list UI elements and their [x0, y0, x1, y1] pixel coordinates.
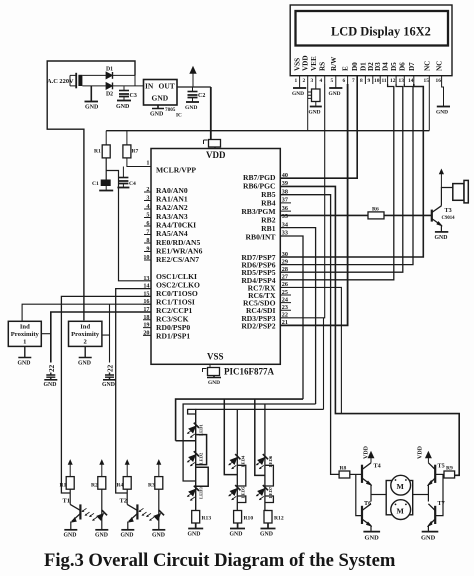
- svg-text:9: 9: [368, 78, 371, 84]
- light arrows from D3: [89, 513, 97, 521]
- wire: R7 top to rail: [126, 131, 128, 145]
- svg-text:GND: GND: [64, 533, 77, 539]
- svg-text:R9: R9: [446, 466, 453, 472]
- svg-text:GND: GND: [18, 361, 31, 367]
- wire: LCD D4 to PIC pin27: [280, 84, 394, 280]
- wire: chain2 jumper a: [237, 465, 246, 486]
- wire: LED chain1 main vertical: [195, 409, 197, 511]
- wire: LCD VDD pin2 down to VCC rail: [307, 84, 309, 131]
- wire: PIC pin35 RB2 through R6 to T3 base: [280, 214, 432, 216]
- svg-text:LED2: LED2: [199, 452, 204, 464]
- svg-text:R2: R2: [91, 483, 98, 489]
- ground: R10: [230, 523, 245, 529]
- wire: LED chain2 main vertical: [236, 454, 238, 510]
- light arrows into T2: [139, 508, 147, 516]
- ground: T3: [435, 231, 448, 233]
- svg-text:D2: D2: [106, 92, 113, 98]
- svg-text:7: 7: [352, 78, 355, 84]
- wire: T4 emitter to T6 collector (midpoint left): [370, 485, 372, 502]
- svg-text:C1: C1: [92, 181, 99, 187]
- svg-text:GND: GND: [78, 361, 91, 367]
- svg-text:11: 11: [382, 78, 387, 84]
- transistor T6: [361, 506, 363, 524]
- LED D6 chain1b: [188, 451, 199, 462]
- microcontroller U1 PIC16F877A box: [151, 149, 280, 365]
- svg-text:VEE: VEE: [310, 56, 318, 71]
- wire: LED rail H1b: [183, 404, 316, 481]
- light arrows into T1: [82, 508, 90, 516]
- wire: LCD D7 to PIC pin30: [280, 84, 423, 257]
- wire: H1 drop to chain2 midpoint: [224, 399, 237, 475]
- resistor R13: [192, 511, 200, 524]
- svg-text:1: 1: [146, 160, 149, 167]
- wire: T5/T7 base drop: [435, 474, 443, 515]
- svg-text:VSS: VSS: [294, 58, 302, 71]
- power flag above R1: [68, 459, 73, 477]
- svg-text:4: 4: [320, 78, 323, 84]
- wire: LED chain3 main vertical: [265, 454, 268, 510]
- capacitor C2: [188, 91, 198, 93]
- LED D7 chain1c: [188, 486, 199, 497]
- wire: pin15 to T1 sensor collector: [61, 296, 151, 493]
- wire: T4/T6 base drop: [356, 474, 362, 515]
- wire: R9 to T5 base: [435, 473, 444, 475]
- LED D10 chain3a: [257, 454, 268, 465]
- ground: D3: [95, 529, 108, 531]
- wire: H1 left zig to chain1: [176, 440, 196, 442]
- svg-text:C9014: C9014: [442, 216, 456, 221]
- motor M1: [391, 475, 411, 495]
- transistor T3 C9014: [431, 210, 433, 222]
- ground: T6: [363, 531, 380, 533]
- svg-text:IN: IN: [145, 82, 154, 91]
- wire: transformer secondary bottom to D2: [82, 85, 106, 87]
- wire: VCC rail horizontal: [106, 130, 429, 132]
- wire: LCD E to PIC pin21: [280, 84, 347, 325]
- wire: rectifier-output top frame: [47, 61, 135, 320]
- svg-text:R13: R13: [202, 516, 212, 522]
- ground: cap 22 (2): [103, 379, 116, 381]
- power flag VDD at T4: [370, 457, 372, 463]
- capacitor C3: [119, 90, 129, 92]
- wire: R4 to T2 collector: [126, 489, 128, 504]
- ground: T1 emitter: [64, 529, 77, 531]
- svg-text:GND: GND: [230, 532, 243, 538]
- IR LED D3: [96, 510, 107, 521]
- ground: R13: [188, 523, 203, 529]
- svg-text:GND: GND: [85, 105, 99, 111]
- svg-text:PIC16F877A: PIC16F877A: [224, 367, 274, 377]
- wire: LCD backlight pin15 down to VCC rail: [428, 84, 430, 131]
- wire: T3 emitter to ground: [440, 225, 442, 232]
- svg-text:R12: R12: [274, 516, 284, 522]
- wire: rail H2 riser to pin22 net: [323, 318, 325, 410]
- svg-text:OUT: OUT: [159, 82, 175, 91]
- resistor R12: [264, 511, 272, 524]
- svg-text:R8: R8: [340, 466, 347, 472]
- svg-text:T2: T2: [120, 498, 127, 505]
- svg-text:R10: R10: [244, 516, 254, 522]
- resistor R9: [444, 471, 455, 478]
- diode D1: [106, 72, 113, 79]
- wire: pin17 net to prox1 output / cap: [51, 312, 151, 363]
- PIC right stubs pins 37,36,35,25,24,23 (short): [280, 203, 291, 310]
- wire: H2 drop to LED chain2: [236, 409, 238, 454]
- PIC left stubs pins 2-10: [144, 192, 151, 260]
- svg-text:12: 12: [390, 78, 396, 84]
- wire: midpoint left to motor frame: [371, 494, 386, 496]
- resistor R3: [155, 477, 163, 490]
- wire: T6 emitter to ground: [370, 526, 372, 532]
- transformer X1: [75, 73, 77, 89]
- svg-text:1: 1: [23, 339, 26, 346]
- wire: LCD D0 to PIC pin40 RB7: [280, 76, 357, 179]
- wire: proximity2 output to pin16 net: [102, 304, 110, 335]
- ferrite bead above PIC VDD: [204, 140, 208, 144]
- svg-text:RD2/PSP2: RD2/PSP2: [241, 321, 275, 330]
- wire: R1 to T1 collector: [69, 489, 71, 504]
- wire: R3 to IR LED: [158, 489, 160, 530]
- svg-text:Ind: Ind: [80, 324, 90, 331]
- resistor R8: [339, 471, 350, 478]
- svg-text:13: 13: [399, 78, 405, 84]
- wire: R1 top to rail: [105, 131, 107, 145]
- wire: chain1 jumper b: [196, 467, 209, 486]
- wire: T3 collector up: [441, 188, 452, 206]
- wire: chain1 jumper a: [196, 435, 207, 465]
- LED D9 chain2b: [229, 485, 240, 496]
- svg-text:16: 16: [436, 78, 442, 84]
- wire: PIC pin39 RB6 to motor driver right (R9 loop): [280, 186, 459, 475]
- svg-text:LCD Display 16X2: LCD Display 16X2: [331, 25, 431, 39]
- svg-text:VDD: VDD: [302, 55, 310, 71]
- svg-text:22: 22: [107, 364, 115, 372]
- LCD pin stubs: [300, 76, 442, 84]
- ground: R12: [261, 523, 276, 529]
- svg-text:GND: GND: [152, 94, 169, 103]
- light arrows from D4: [146, 513, 154, 521]
- svg-text:T1: T1: [63, 498, 70, 505]
- IR LED D4: [153, 510, 164, 521]
- ground: LCD pin16: [442, 84, 444, 107]
- wire: VCC vertical down to ferrite bead: [210, 87, 212, 140]
- wire: T7 emitter to ground: [427, 526, 429, 532]
- wire: cap2 below prox2: [109, 335, 111, 362]
- LCD module inner box: [296, 11, 449, 46]
- svg-text:GND: GND: [260, 532, 273, 538]
- svg-text:GND: GND: [44, 382, 57, 388]
- wire: pin16 net to proximity1 supply: [22, 304, 151, 321]
- wire: chain3 jumper a: [265, 465, 274, 486]
- svg-text:E: E: [342, 66, 350, 71]
- wire: MCLR RC node to OSC1 pin13: [106, 171, 151, 281]
- ground: T7: [422, 531, 439, 533]
- wire: R8 to T4 base: [350, 473, 362, 475]
- motor loop frame: [386, 481, 413, 515]
- wire: LCD D6 to PIC pin29: [280, 84, 413, 265]
- LED D5 chain1a: [188, 423, 199, 434]
- power flag: +V arrow at 7805 output: [192, 72, 194, 87]
- wire: R1 bottom to C1: [105, 158, 107, 180]
- svg-text:10: 10: [374, 78, 380, 84]
- PIC right pin numbers: [282, 172, 288, 326]
- ground: LCD VSS pin1: [299, 84, 301, 88]
- svg-text:5: 5: [331, 78, 334, 84]
- ground: 7805: [152, 105, 164, 109]
- svg-text:22: 22: [48, 364, 56, 372]
- wire: H1 drop to chain3 midpoint: [255, 399, 265, 475]
- svg-text:8: 8: [360, 78, 363, 84]
- svg-text:IC: IC: [176, 113, 182, 119]
- motor M2: [391, 500, 411, 520]
- svg-text:GND: GND: [150, 112, 164, 118]
- wire: PIC pin26 RC7 down-route: [280, 287, 341, 413]
- wire: H2 drop to chain1 top: [188, 409, 196, 414]
- svg-text:Proximity: Proximity: [11, 331, 40, 338]
- svg-text:R7: R7: [132, 149, 139, 155]
- svg-text:D0: D0: [351, 62, 359, 71]
- resistor R2: [98, 477, 106, 490]
- PIC left pin numbers: [143, 160, 149, 337]
- buzzer LS1: [453, 184, 464, 201]
- svg-text:M: M: [397, 506, 405, 515]
- transistor T7: [434, 506, 436, 524]
- wire: D1 to node: [113, 74, 136, 76]
- svg-text:GND: GND: [121, 533, 134, 539]
- svg-text:Proximity: Proximity: [71, 331, 100, 338]
- svg-text:VDD: VDD: [206, 150, 226, 160]
- svg-text:R6: R6: [372, 207, 379, 213]
- wire: LCD RS to PIC pin22: [280, 84, 324, 318]
- LED D8 chain2a: [229, 454, 240, 465]
- svg-text:Fig.3 Overall Circuit Diagram: Fig.3 Overall Circuit Diagram of the Sys…: [44, 550, 396, 571]
- PIC right pin labels: [241, 173, 276, 330]
- svg-text:GND: GND: [421, 535, 436, 542]
- svg-text:R4: R4: [117, 483, 124, 489]
- LCD pin numbers 1-16: [295, 78, 442, 84]
- svg-text:C2: C2: [198, 93, 205, 99]
- wire: 7805 OUT to VCC node: [177, 86, 211, 88]
- svg-text:GND: GND: [102, 382, 115, 388]
- power flag above R4: [125, 459, 130, 477]
- wire: proximity1 output stub: [41, 333, 51, 335]
- power flag at T3 collector: [440, 174, 442, 188]
- PIC left pin labels: [156, 166, 203, 341]
- wire: PIC pin38 RB5 to motor driver left (R8): [280, 195, 339, 475]
- sensor module Ind Proximity 1: [8, 321, 41, 346]
- resistor R6: [368, 212, 384, 219]
- svg-text:GND: GND: [329, 91, 341, 97]
- wire: D2 out: [113, 85, 144, 87]
- svg-text:R1: R1: [94, 149, 101, 155]
- svg-text:RA2/AN2: RA2/AN2: [156, 203, 188, 212]
- ground: C2: [186, 101, 199, 103]
- svg-text:NC: NC: [423, 61, 431, 71]
- svg-text:D7: D7: [408, 62, 416, 71]
- svg-text:RB0/INT: RB0/INT: [246, 233, 276, 242]
- svg-text:T5: T5: [438, 463, 445, 470]
- wire: T5 emitter to T7 collector (midpoint right): [427, 485, 429, 502]
- LCD module outer box: [290, 5, 452, 76]
- svg-text:D1: D1: [106, 67, 113, 73]
- svg-text:GND: GND: [185, 105, 197, 111]
- svg-text:GND: GND: [95, 533, 108, 539]
- transistor T4: [361, 465, 363, 483]
- svg-text:R1: R1: [60, 483, 67, 489]
- svg-text:1: 1: [295, 78, 298, 84]
- wire: motor frame to midpoint right: [413, 494, 429, 496]
- ground: C3: [117, 100, 131, 102]
- svg-text:VSS: VSS: [207, 352, 224, 362]
- svg-text:T3: T3: [445, 207, 452, 214]
- wire: R2 to IR LED: [101, 489, 103, 530]
- svg-text:M: M: [397, 482, 405, 491]
- resistor R4: [123, 477, 131, 490]
- svg-text:D6: D6: [398, 62, 406, 71]
- ground: proximity 1: [18, 346, 31, 357]
- wire: LCD D5 to PIC pin28: [280, 84, 403, 272]
- svg-text:GND: GND: [116, 104, 130, 110]
- svg-text:GND: GND: [208, 380, 220, 386]
- wire: H1b drop to LED chain3: [264, 404, 266, 454]
- capacitor C1: [101, 180, 111, 187]
- svg-text:C4: C4: [129, 181, 136, 187]
- svg-text:T4: T4: [374, 463, 381, 470]
- svg-text:D5: D5: [390, 62, 398, 71]
- decoupling component at VSS: [203, 364, 211, 372]
- svg-text:14: 14: [408, 78, 414, 84]
- svg-text:R3: R3: [148, 483, 155, 489]
- ground: D4: [152, 529, 165, 531]
- svg-text:Ind: Ind: [20, 324, 30, 331]
- wire: LED rail H1: [176, 399, 303, 441]
- wire: ac to transformer: [70, 75, 76, 86]
- wire: PIC pin33 RB0 to LED rail H1: [280, 236, 303, 399]
- svg-text:VDD: VDD: [418, 445, 424, 459]
- svg-text:GND: GND: [152, 533, 165, 539]
- svg-text:R/W: R/W: [330, 56, 338, 71]
- power flag VDD at T5: [427, 457, 429, 463]
- sensor module Ind Proximity 2: [69, 321, 102, 346]
- resistor R1: [66, 477, 74, 490]
- svg-text:C3: C3: [130, 93, 137, 99]
- svg-text:6: 6: [343, 78, 346, 84]
- wire: transformer secondary top to D1: [82, 74, 106, 76]
- svg-text:GND: GND: [292, 91, 304, 97]
- wire: chain3 jumper b: [265, 496, 274, 503]
- capacitor C4: [122, 167, 124, 178]
- ground: T2 emitter: [121, 529, 134, 531]
- resistor R7: [123, 145, 131, 158]
- svg-text:GND: GND: [365, 535, 380, 542]
- svg-text:GND: GND: [436, 110, 448, 116]
- svg-text:NC: NC: [436, 61, 444, 71]
- svg-text:RE2/CS/AN7: RE2/CS/AN7: [156, 255, 199, 264]
- svg-text:LED3: LED3: [199, 487, 204, 499]
- svg-text:13: 13: [143, 275, 149, 282]
- wire: LED rail H2: [188, 408, 324, 410]
- svg-text:RS: RS: [319, 62, 327, 71]
- potentiometer at VEE: [315, 84, 317, 89]
- ground: PIC VSS: [207, 376, 221, 378]
- wire: MCLR node R7 to pin1: [127, 158, 151, 167]
- wire: PIC pin34 RB1 to LED rail H1b: [280, 228, 315, 404]
- svg-text:GND: GND: [188, 532, 201, 538]
- svg-text:GND: GND: [309, 110, 321, 116]
- svg-text:3: 3: [311, 78, 314, 84]
- ground: LCD R/W pin5: [335, 84, 337, 88]
- ground: cap 22 (1): [44, 379, 57, 381]
- power flag above R2: [99, 459, 104, 477]
- resistor R1: [102, 145, 110, 158]
- power flag above R3: [156, 459, 161, 477]
- PIC left stubs pins 16,18,19,20: [143, 304, 151, 335]
- svg-text:T7: T7: [438, 500, 445, 507]
- wire: chain2 jumper b: [237, 496, 246, 503]
- wire: pin14 to T2 sensor collector: [116, 289, 151, 493]
- svg-text:15: 15: [424, 78, 430, 84]
- ground: proximity 2: [79, 346, 92, 357]
- resistor R10: [234, 511, 242, 524]
- diode D2: [106, 83, 113, 90]
- svg-text:RA5/AN4: RA5/AN4: [156, 229, 188, 238]
- svg-text:2: 2: [84, 339, 88, 346]
- svg-text:T6: T6: [364, 500, 371, 507]
- svg-text:MCLR/VPP: MCLR/VPP: [156, 166, 196, 175]
- transistor T5: [434, 465, 436, 483]
- LCD pin labels (rotated): [294, 55, 444, 71]
- svg-text:D4: D4: [382, 62, 390, 71]
- wire: rectifier node vertical: [134, 61, 136, 86]
- svg-text:RD1/PSP1: RD1/PSP1: [156, 332, 190, 341]
- LED D11 chain3b: [257, 485, 268, 496]
- svg-text:35: 35: [282, 213, 288, 220]
- svg-text:7805: 7805: [165, 107, 176, 113]
- svg-text:GND: GND: [435, 235, 448, 241]
- ground: transformer secondary: [90, 86, 92, 101]
- regulator 7805 IC: [144, 80, 178, 106]
- svg-text:2: 2: [303, 78, 306, 84]
- ground: VEE pot: [310, 106, 322, 108]
- svg-text:VDD: VDD: [364, 445, 370, 459]
